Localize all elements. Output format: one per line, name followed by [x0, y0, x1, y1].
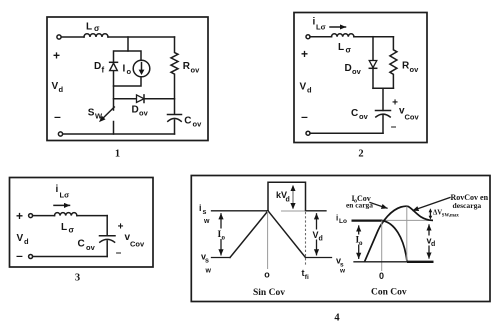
- svg-text:Sin Cov: Sin Cov: [253, 288, 285, 298]
- svg-text:ov: ov: [86, 243, 96, 252]
- svg-text:Cov: Cov: [130, 240, 145, 249]
- svg-text:Cov: Cov: [405, 113, 420, 122]
- svg-text:SW,max: SW,max: [442, 214, 460, 219]
- svg-text:o: o: [222, 234, 226, 242]
- svg-text:σ: σ: [69, 226, 75, 235]
- svg-text:2: 2: [358, 149, 363, 160]
- svg-text:i: i: [56, 184, 59, 195]
- svg-text:σ: σ: [94, 24, 100, 33]
- svg-text:w: w: [205, 268, 212, 275]
- svg-text:0: 0: [379, 271, 384, 281]
- svg-text:ov: ov: [359, 112, 369, 121]
- svg-text:d: d: [286, 197, 290, 204]
- svg-text:o: o: [359, 239, 363, 247]
- svg-text:S: S: [88, 108, 95, 119]
- svg-text:I: I: [123, 64, 126, 75]
- svg-text:d: d: [431, 241, 435, 248]
- svg-text:d: d: [307, 86, 312, 95]
- svg-text:D: D: [94, 61, 101, 72]
- svg-text:4: 4: [334, 313, 340, 324]
- svg-text:Con Cov: Con Cov: [371, 288, 407, 298]
- svg-text:f: f: [102, 66, 105, 75]
- svg-text:V: V: [52, 81, 59, 92]
- svg-text:C: C: [78, 239, 85, 250]
- svg-text:D: D: [132, 105, 139, 116]
- svg-text:s: s: [205, 258, 209, 265]
- svg-text:Lσ: Lσ: [60, 191, 70, 200]
- svg-text:–: –: [391, 122, 397, 133]
- svg-text:–: –: [116, 248, 122, 259]
- svg-text:1: 1: [115, 149, 120, 160]
- svg-text:s: s: [203, 209, 207, 216]
- svg-text:V: V: [300, 82, 307, 93]
- svg-text:+: +: [301, 47, 308, 61]
- svg-text:+: +: [392, 98, 398, 109]
- svg-text:+: +: [53, 49, 60, 63]
- svg-text:–: –: [301, 110, 308, 124]
- svg-text:ov: ov: [139, 109, 149, 118]
- svg-text:L: L: [61, 222, 67, 233]
- svg-text:ov: ov: [352, 67, 362, 76]
- svg-text:d: d: [59, 85, 64, 94]
- svg-text:ov: ov: [410, 65, 420, 74]
- svg-text:o: o: [127, 67, 132, 76]
- svg-text:en carga: en carga: [346, 201, 373, 210]
- svg-text:L: L: [338, 42, 344, 53]
- svg-text:d: d: [319, 236, 323, 243]
- svg-text:ov: ov: [193, 120, 203, 129]
- svg-text:Lσ: Lσ: [316, 23, 326, 32]
- svg-text:ov: ov: [191, 66, 201, 75]
- svg-text:+: +: [118, 222, 124, 233]
- svg-text:o: o: [264, 270, 270, 280]
- svg-text:fi: fi: [305, 274, 309, 281]
- svg-text:i: i: [336, 214, 338, 223]
- svg-text:Lo: Lo: [339, 218, 347, 225]
- svg-text:i: i: [199, 203, 202, 213]
- svg-text:3: 3: [75, 273, 80, 284]
- svg-text:w: w: [339, 268, 346, 275]
- svg-text:C: C: [184, 116, 191, 127]
- svg-text:w: w: [203, 218, 210, 225]
- svg-text:V: V: [17, 233, 24, 244]
- svg-text:L: L: [86, 22, 92, 33]
- svg-text:D: D: [345, 63, 352, 74]
- svg-text:W: W: [95, 112, 103, 121]
- svg-text:σ: σ: [346, 46, 352, 55]
- svg-text:–: –: [54, 110, 61, 124]
- svg-text:descarga: descarga: [453, 201, 482, 210]
- svg-text:d: d: [24, 237, 29, 246]
- svg-text:–: –: [16, 249, 23, 263]
- svg-text:+: +: [16, 209, 23, 223]
- svg-text:C: C: [351, 108, 358, 119]
